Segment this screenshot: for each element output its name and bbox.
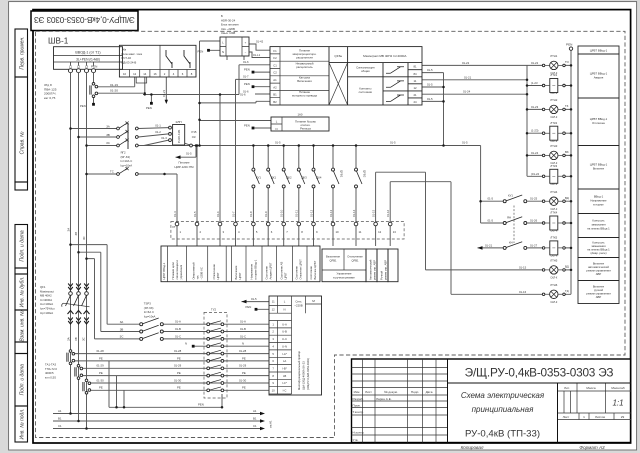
svg-text:01-21: 01-21 [485,243,493,247]
svg-text:N: N [222,50,224,54]
svg-text:КУ1: КУ1 [508,194,513,198]
svg-text:12: 12 [378,230,382,234]
svg-text:01-А: 01-А [240,320,246,324]
svg-text:М: М [312,299,315,303]
svg-text:01-5: 01-5 [427,97,433,101]
svg-text:ВД: ВД [565,196,569,200]
svg-text:Плавкие цепи: Плавкие цепи [171,262,175,280]
svg-text:10: 10 [272,389,276,393]
svg-text:КЛП: КЛП [176,120,182,124]
svg-text:01-5: 01-5 [427,68,433,72]
svg-text:01-С: 01-С [175,334,181,338]
svg-text:01-15: 01-15 [519,265,527,269]
svg-text:В1: В1 [58,417,62,421]
svg-text:Т.контр.: Т.контр. [353,410,364,414]
svg-text:ВЗ: ВЗ [565,150,569,154]
svg-text:Включение: Включение [326,255,340,259]
svg-text:Отключение: Отключение [212,264,216,280]
svg-text:01-28: 01-28 [239,349,247,353]
svg-text:ЗА: ЗА [106,124,110,128]
svg-text:Масса: Масса [586,386,595,390]
svg-text:N: N [242,342,244,346]
svg-text:01-21: 01-21 [162,89,166,97]
svg-text:A1: A1 [273,78,277,82]
svg-text:ЗС: ЗС [106,141,110,145]
svg-text:01-24: 01-24 [463,90,471,94]
svg-text:01-22: 01-22 [462,61,470,65]
svg-text:12: 12 [133,72,137,76]
svg-text:L3: L3 [85,64,89,68]
svg-text:моторного привода: моторного привода [292,94,317,98]
svg-text:см.А1: см.А1 [269,420,273,428]
svg-text:Управление: Управление [337,272,352,276]
svg-text:Пров.: Пров. [353,403,361,407]
svg-text:81: 81 [413,65,417,69]
svg-text:РЕ: РЕ [177,386,181,390]
svg-text:QF6н: QF6н [334,54,342,58]
svg-text:10: 10 [123,72,127,76]
svg-text:Iср=10кА: Iср=10кА [121,163,133,167]
svg-text:B1: B1 [273,93,277,97]
svg-text:01-12: 01-12 [309,209,313,217]
svg-text:ЯН: ЯН [507,216,511,220]
svg-text:ЛТК2: ЛТК2 [550,121,557,125]
svg-text:PEN: PEN [244,124,250,128]
svg-text:Включен: Включен [593,167,605,171]
svg-text:ЦРБТ: ЦРБТ [284,272,288,279]
svg-text:ПД-03-24-В: ПД-03-24-В [122,61,137,65]
svg-text:СКЛ-К: СКЛ-К [550,72,557,75]
svg-text:общая: общая [361,69,370,73]
svg-text:Включения: Включения [297,79,312,83]
svg-text:ТС: ТС [110,170,114,174]
svg-text:Подп. и дата: Подп. и дата [19,230,25,262]
svg-text:Э/ЩРУ-0,4кВ-0353-0303 ЭЗ: Э/ЩРУ-0,4кВ-0353-0303 ЭЗ [34,15,135,24]
svg-text:ДК3: ДК3 [302,176,308,180]
svg-text:01-30: 01-30 [239,378,247,382]
svg-text:ЗВ: ЗВ [120,327,124,331]
svg-text:84: 84 [413,72,417,76]
svg-text:01-6: 01-6 [243,60,249,64]
svg-text:PEN: PEN [246,305,252,309]
svg-text:12: 12 [413,86,417,90]
svg-text:Оперативный: Оперативный [191,262,195,280]
svg-text:РЕ: РЕ [242,386,246,390]
svg-text:01-1: 01-1 [155,124,161,128]
svg-text:ЛТН3: ЛТН3 [550,144,558,148]
svg-text:ЛТН4: ЛТН4 [550,190,558,194]
svg-text:01-С: 01-С [240,334,246,338]
svg-text:F2: F2 [273,56,277,60]
svg-text:ЦРБТ ВВод-1: ЦРБТ ВВод-1 [590,49,608,53]
svg-text:ДК4: ДК4 [316,176,322,180]
svg-text:Подп. и дата: Подп. и дата [19,364,25,396]
svg-text:В1: В1 [253,417,257,421]
svg-text:01-В: 01-В [175,327,181,331]
svg-text:АВР: АВР [596,295,602,299]
svg-text:Состояние: Состояние [265,266,269,280]
svg-text:Перв. примен.: Перв. примен. [19,36,25,69]
svg-text:N: N [185,342,187,346]
svg-text:01-11: 01-11 [295,210,299,217]
svg-text:ХТ: ХТ [172,225,176,229]
svg-text:01-2: 01-2 [155,130,161,134]
svg-text:ЦМР-120С ПМ: ЦМР-120С ПМ [175,165,195,169]
svg-text:01-3: 01-3 [161,136,167,140]
svg-text:01-24: 01-24 [531,151,539,155]
svg-text:расцепителя: расцепителя [296,56,313,60]
svg-text:I-В: I-В [283,374,287,378]
svg-text:СКЛ-К: СКЛ-К [550,92,557,95]
svg-text:01-16: 01-16 [386,209,390,217]
svg-text:01-30: 01-30 [97,378,105,382]
svg-text:PEN: PEN [198,403,204,407]
svg-text:U-С: U-С [282,337,287,341]
svg-text:L2: L2 [77,64,81,68]
svg-text:СКЛ-К: СКЛ-К [550,208,557,211]
svg-text:01-29: 01-29 [239,364,247,368]
svg-text:01-6: 01-6 [216,211,220,217]
svg-text:№ докум.: № докум. [384,390,398,394]
svg-text:ЗС: ЗС [82,236,86,240]
svg-text:кат 0,75: кат 0,75 [44,96,56,100]
svg-text:ВД: ВД [565,265,569,269]
svg-text:ЩМ-120Д-4000А-5А-23: ЩМ-120Д-4000А-5А-23 [302,361,306,390]
svg-text:PEN: PEN [566,42,572,46]
svg-text:(1-23: (1-23 [531,81,538,85]
svg-text:(Авар. реле): (Авар. реле) [590,251,606,255]
svg-text:СКЛ-К: СКЛ-К [550,255,557,258]
svg-text:01-10: 01-10 [280,209,284,217]
svg-text:PEN: PEN [198,49,204,53]
svg-text:Состояние: Состояние [309,266,313,280]
svg-text:Отключен: Отключен [592,121,605,125]
svg-text:ЛТК5: ЛТК5 [550,236,557,240]
svg-text:PEN: PEN [244,82,250,86]
svg-text:N: N [283,307,285,311]
svg-text:~220В АС: ~220В АС [199,267,203,279]
svg-text:Ларин А.Е.: Ларин А.Е. [376,397,392,401]
svg-text:СКЛ-К: СКЛ-К [550,183,557,186]
svg-text:01-В: 01-В [240,327,246,331]
svg-text:C2: C2 [273,71,277,75]
svg-text:01-23: 01-23 [531,105,539,109]
svg-text:РН1Б-1М1: РН1Б-1М1 [177,129,181,143]
svg-text:Состояние АВ: Состояние АВ [280,262,284,280]
svg-text:Инв. № дубл.: Инв. № дубл. [19,277,25,308]
svg-text:13: 13 [393,230,397,234]
svg-text:ДК2: ДК2 [287,176,293,180]
svg-text:01-5: 01-5 [186,152,192,156]
svg-text:С1: С1 [58,424,62,428]
svg-text:РЕ: РЕ [242,356,246,360]
svg-text:I-С: I-С [283,389,287,393]
svg-text:Схема электрическая: Схема электрическая [461,391,545,400]
svg-text:ЛТН2: ЛТН2 [550,98,558,102]
svg-text:10: 10 [336,230,340,234]
svg-text:Ручной: Ручной [380,270,384,280]
svg-text:01-28: 01-28 [174,349,182,353]
svg-text:в ручном режиме: в ручном режиме [333,277,355,280]
svg-text:U-В: U-В [282,330,287,334]
svg-text:управления: управления [180,264,183,279]
svg-text:11: 11 [272,300,275,304]
svg-text:01-5: 01-5 [488,197,494,201]
svg-text:QFВ1: QFВ1 [351,259,359,263]
svg-text:А1: А1 [253,409,257,413]
svg-text:Копировал: Копировал [461,445,484,450]
svg-text:01-30: 01-30 [174,378,182,382]
svg-text:01-27: 01-27 [530,243,538,247]
svg-text:01-25: 01-25 [530,197,538,201]
svg-text:Н.контр.: Н.контр. [353,430,365,434]
svg-text:Авария ЦРБТ: Авария ЦРБТ [269,262,273,279]
svg-text:I-А: I-А [283,359,287,363]
svg-text:ЦРБТ: ЦРБТ [216,272,220,279]
svg-text:~220В: ~220В [294,304,302,308]
svg-text:01-29: 01-29 [174,364,182,368]
svg-text:ЗВ: ЗВ [74,337,78,341]
svg-text:РЕ: РЕ [177,356,181,360]
svg-text:РЕ: РЕ [99,371,103,375]
svg-text:ЗС: ЗС [82,337,86,341]
svg-text:ШВ-1: ШВ-1 [48,37,69,46]
svg-text:Masterpact МВ 40Н2 In=4000А: Masterpact МВ 40Н2 In=4000А [363,54,407,58]
svg-text:клл 0,5S: клл 0,5S [45,375,56,379]
svg-text:Напряжение: Напряжение [250,263,254,279]
svg-text:01-22: 01-22 [531,61,539,65]
svg-text:01-14: 01-14 [352,209,356,217]
svg-text:PEN: PEN [146,106,152,110]
svg-text:3L+PEN (0,4кВ): 3L+PEN (0,4кВ) [76,57,100,61]
svg-text:ЗА: ЗА [67,337,71,341]
svg-text:СКЛ-К: СКЛ-К [550,116,557,119]
svg-text:01-5: 01-5 [390,141,396,145]
svg-text:Iср=10кА: Iср=10кА [144,314,156,318]
svg-text:U-N: U-N [282,344,287,348]
svg-text:СКЛ-К: СКЛ-К [550,230,557,233]
svg-text:21: 21 [413,93,417,97]
svg-text:01-20: 01-20 [110,89,118,93]
svg-text:ЛТК4: ЛТК4 [550,211,557,215]
svg-text:РЕ: РЕ [242,371,246,375]
svg-text:на землю ВВод-1: на землю ВВод-1 [587,227,610,231]
svg-text:01-5: 01-5 [251,297,257,301]
svg-text:ЦРБТ ВВод-1: ЦРБТ ВВод-1 [162,262,166,279]
svg-text:Дата: Дата [426,390,433,394]
svg-text:01-15: 01-15 [371,209,375,217]
svg-text:01-9: 01-9 [264,211,268,217]
svg-text:01-5: 01-5 [488,219,494,223]
svg-text:Утв.: Утв. [353,438,359,442]
svg-text:Р15: Р15 [192,130,197,134]
svg-text:01-7: 01-7 [231,211,235,217]
svg-text:11: 11 [414,79,417,83]
svg-text:ЗС: ЗС [120,335,124,339]
svg-text:Листов: Листов [595,415,605,419]
svg-text:Состояние: Состояние [295,266,299,280]
svg-text:(1-23): (1-23) [531,129,539,133]
svg-text:Лист: Лист [563,415,570,419]
svg-text:Многофункциональный прибор: Многофункциональный прибор [297,351,301,390]
svg-text:Лит.: Лит. [564,386,570,390]
svg-text:(01-24: (01-24 [531,172,540,176]
svg-text:Э/Щ.РУ-0,4кВ-0353-0303 ЭЗ: Э/Щ.РУ-0,4кВ-0353-0303 ЭЗ [465,366,614,380]
svg-text:режим упр. АВР: режим упр. АВР [373,260,377,280]
svg-text:ЗА: ЗА [120,320,124,324]
svg-text:PEN: PEN [80,104,86,108]
svg-text:РЕ: РЕ [99,356,103,360]
svg-text:КУ1: КУ1 [256,176,261,180]
svg-text:Включение: Включение [234,265,238,279]
svg-text:АВР: АВР [596,272,602,276]
svg-text:Разраб.: Разраб. [353,397,364,401]
svg-text:PEN: PEN [91,64,97,68]
svg-text:12: 12 [272,307,276,311]
svg-text:B2: B2 [273,100,277,104]
svg-text:Автоматический: Автоматический [369,259,373,280]
svg-text:QFВ2: QFВ2 [363,170,367,178]
svg-text:01-26: 01-26 [530,219,538,223]
svg-text:F1: F1 [273,49,277,53]
svg-text:принципиальная: принципиальная [472,405,535,414]
svg-text:Инв. № подл.: Инв. № подл. [19,408,25,439]
svg-text:Отключение: Отключение [347,255,363,259]
svg-text:01-5: 01-5 [462,141,468,145]
svg-text:ТУ2: ТУ2 [211,308,216,312]
svg-text:ТД: ТД [565,289,569,293]
svg-text:Формат А3: Формат А3 [579,445,605,450]
svg-text:16: 16 [153,72,157,76]
svg-text:24: 24 [413,100,417,104]
svg-text:Питание: Питание [178,161,189,165]
svg-text:СКЛ-К: СКЛ-К [550,140,557,143]
svg-text:Масштаб: Масштаб [611,386,624,390]
svg-text:1А0: 1А0 [298,112,303,116]
svg-text:РЕ: РЕ [99,386,103,390]
svg-text:QFВ1: QFВ1 [329,259,337,263]
svg-text:L1: L1 [69,64,73,68]
svg-text:01-8: 01-8 [249,211,253,217]
svg-text:ЗВ: ЗВ [74,232,78,236]
svg-text:ЗВ: ЗВ [106,133,110,137]
svg-text:в норме: в норме [593,203,604,207]
svg-text:ДК1: ДК1 [271,176,277,180]
svg-text:ОК: ОК [192,135,196,139]
svg-text:Справ. №: Справ. № [19,131,25,154]
svg-text:РУ-0,4кВ (ТП-33): РУ-0,4кВ (ТП-33) [465,429,540,440]
svg-text:01-5: 01-5 [193,211,197,217]
svg-text:в норме ВВод-1: в норме ВВод-1 [254,259,258,279]
svg-text:Лист: Лист [365,390,372,394]
svg-text:01-5: 01-5 [427,83,433,87]
svg-text:01-А: 01-А [175,320,181,324]
svg-text:01-19: 01-19 [110,83,118,87]
svg-text:Взам. инв. №: Взам. инв. № [19,310,25,342]
svg-text:01-16: 01-16 [519,290,527,294]
svg-text:Релисса: Релисса [300,127,311,131]
svg-text:1:1: 1:1 [612,399,623,408]
svg-text:СКЛ-К: СКЛ-К [550,162,557,165]
svg-text:Авария: Авария [594,76,604,80]
svg-text:QFВ1: QFВ1 [340,170,344,178]
svg-text:расцепитель: расцепитель [296,65,313,69]
svg-text:ЛТН6: ЛТН6 [550,283,558,287]
svg-text:01-13: 01-13 [329,209,333,217]
svg-text:ЛТН5: ЛТН5 [550,259,558,263]
svg-text:C1: C1 [273,63,277,67]
svg-text:ЗА: ЗА [66,228,70,232]
svg-text:А1: А1 [58,409,62,413]
svg-text:(Э/ЩРУ-0,4кВ-0353-0303): (Э/ЩРУ-0,4кВ-0353-0303) [306,358,310,390]
svg-text:Изм: Изм [354,390,360,394]
svg-text:PEN: PEN [244,68,250,72]
svg-text:РЕ: РЕ [177,371,181,375]
svg-text:01-4: 01-4 [173,211,177,217]
svg-text:сигнализации и: сигнализации и [176,260,179,280]
svg-text:ВВОД-1 (от Т1): ВВОД-1 (от Т1) [75,50,100,54]
svg-text:01-6: 01-6 [240,93,246,97]
svg-text:режим упр. АВР: режим упр. АВР [384,260,388,280]
svg-text:ЛТН1: ЛТН1 [550,54,558,58]
svg-text:N: N [275,127,277,131]
svg-text:1: 1 [583,415,585,419]
svg-text:ЦРБТ: ЦРБТ [238,272,242,279]
svg-text:01-28: 01-28 [97,349,105,353]
svg-text:A2: A2 [273,85,277,89]
svg-text:29: 29 [621,415,625,419]
svg-text:01-L1: 01-L1 [253,53,261,57]
svg-text:Iср=100кА: Iср=100кА [40,311,53,315]
svg-text:ТЗ: ТЗ [565,104,569,108]
svg-text:01-42: 01-42 [256,40,264,44]
svg-text:Включен ЦРБТ: Включен ЦРБТ [313,260,317,279]
svg-text:состояния: состояния [359,90,373,94]
svg-text:СКЛ-К: СКЛ-К [550,301,557,304]
svg-text:СКЛ-К: СКЛ-К [550,277,557,280]
svg-text:11: 11 [359,230,362,234]
svg-text:01-5: 01-5 [275,141,281,145]
svg-text:14: 14 [143,72,147,76]
svg-text:Отключен ЦРБТ: Отключен ЦРБТ [299,259,303,280]
svg-text:01-21: 01-21 [464,75,472,79]
svg-text:Uвых =24В: Uвых =24В [221,31,235,35]
svg-text:01-7: 01-7 [243,75,249,79]
svg-text:01-29: 01-29 [97,364,105,368]
svg-text:С1: С1 [253,424,257,428]
svg-text:КН: КН [509,240,513,244]
svg-text:U-А: U-А [282,322,287,326]
svg-text:Подп.: Подп. [411,390,419,394]
